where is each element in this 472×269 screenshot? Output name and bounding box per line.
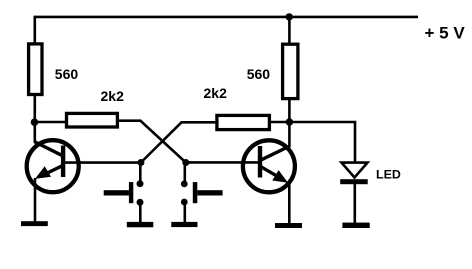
transistor Q2 (243, 140, 295, 192)
wire left button top (139, 163, 142, 182)
wire right button bottom (184, 205, 187, 223)
wire right base line (186, 161, 260, 164)
wire right button top (184, 163, 187, 182)
svg-text:560: 560 (247, 66, 271, 82)
svg-text:+ 5 V: + 5 V (425, 24, 466, 43)
resistor R1 560 left (29, 44, 42, 95)
wire right 560 to node B (288, 99, 291, 147)
node left base junction dot (137, 159, 144, 166)
wire right 2k2 to crossover (141, 122, 218, 162)
ground S1 (127, 222, 154, 227)
svg-text:2k2: 2k2 (101, 88, 125, 104)
svg-text:2k2: 2k2 (204, 85, 228, 101)
node B junction dot (286, 118, 294, 126)
wire LED cathode to ground (353, 184, 356, 224)
resistor R2 560 right (283, 44, 298, 98)
wire node B to LED branch (269, 122, 355, 162)
LED D1 (340, 163, 368, 185)
wire left emitter to ground (34, 178, 37, 222)
wire left 2k2 to crossover (117, 121, 186, 163)
wire right 560 drop (288, 17, 291, 44)
ground Q1 (21, 221, 48, 226)
transistor Q1 (27, 140, 79, 192)
ground S2 (171, 222, 197, 227)
wire left button bottom (139, 205, 142, 223)
ground LED (342, 223, 369, 228)
ground Q2 (275, 223, 302, 228)
svg-text:560: 560 (55, 66, 79, 82)
wire left base line (63, 161, 141, 164)
resistor R4 2k2 right (217, 115, 270, 129)
node +5V junction dot (286, 13, 293, 20)
wire top rail (35, 17, 418, 43)
pushbutton S1 (104, 180, 144, 206)
wire right emitter to ground (288, 183, 291, 225)
svg-text:LED: LED (376, 168, 401, 182)
node A junction dot (31, 118, 39, 126)
wire left 560 to node (33, 95, 36, 143)
node right base junction dot (182, 159, 189, 166)
resistor R3 2k2 left (67, 113, 118, 127)
pushbutton S2 (181, 181, 223, 206)
wire node A to left 2k2 (35, 121, 67, 124)
